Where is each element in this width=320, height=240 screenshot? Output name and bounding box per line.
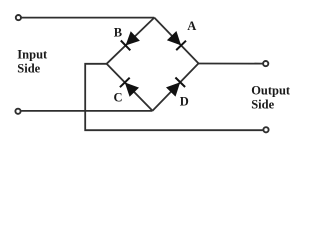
wire diamond edge bottom-left (107, 64, 153, 111)
svg-text:C: C (114, 90, 123, 104)
wire diamond edge bottom-right (153, 63, 199, 110)
svg-text:Input: Input (17, 47, 48, 61)
output terminal (top right) (263, 61, 268, 66)
svg-text:Output: Output (251, 83, 291, 97)
input terminal (top left) (16, 15, 21, 20)
svg-text:B: B (114, 25, 122, 39)
wire bottom input: terminal to bottom vertex (21, 110, 152, 112)
svg-text:A: A (187, 19, 196, 33)
wire diamond edge top-left (107, 18, 155, 64)
diode A (167, 31, 186, 50)
wire right vertex to upper-right output terminal (199, 63, 263, 65)
diode D (166, 78, 185, 97)
wire top input: terminal to top vertex (22, 17, 155, 19)
diode C (120, 78, 139, 97)
svg-text:D: D (180, 94, 189, 108)
input terminal (bottom left) (15, 109, 20, 114)
svg-text:Side: Side (17, 62, 40, 76)
diode B (121, 31, 140, 50)
svg-text:Side: Side (251, 97, 274, 111)
output terminal (bottom right) (263, 127, 268, 132)
wire left vertex to lower-right output terminal (85, 64, 263, 130)
wire diamond edge top-right (154, 18, 198, 64)
